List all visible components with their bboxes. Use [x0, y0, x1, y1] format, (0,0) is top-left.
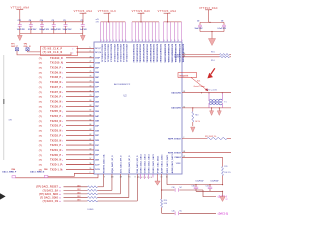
- net label DAC1-Q: [216, 211, 228, 215]
- svg-text:10: 10: [120, 177, 122, 179]
- svg-text:R13: R13: [195, 114, 198, 116]
- svg-text:(T): (T): [39, 140, 42, 142]
- svg-text:D10P: D10P: [95, 58, 100, 60]
- svg-text:(T): (T): [39, 135, 42, 137]
- svg-text:DVDDDAC: DVDDDAC: [132, 53, 135, 63]
- svg-text:58: 58: [90, 153, 92, 155]
- svg-text:mW: mW: [9, 120, 12, 122]
- svg-text:›: ›: [62, 66, 63, 70]
- svg-text:IPTAT_DAC_DAC1: IPTAT_DAC_DAC1: [156, 155, 159, 173]
- svg-text:(T): (T): [39, 92, 42, 94]
- svg-text:DVDDDAC: DVDDDAC: [139, 53, 142, 63]
- capacitor C9: [198, 22, 202, 31]
- svg-text:59: 59: [90, 148, 92, 150]
- net HS_CLK_P row: [43, 48, 63, 50]
- svg-text:›: ›: [62, 138, 63, 142]
- wire DAC1-I chain: [161, 174, 163, 190]
- resistor R11: [222, 157, 224, 166]
- svg-text:33R2: 33R2: [77, 185, 81, 187]
- net TX2D1_N row: [39, 150, 42, 152]
- svg-text:VDDCLK1: VDDCLK1: [119, 44, 121, 53]
- svg-text:S21: S21: [197, 81, 200, 83]
- svg-text:(T): (T): [39, 160, 42, 162]
- svg-text:(T): (T): [39, 111, 42, 113]
- power flag VTT3V3_DAC right: [199, 7, 218, 10]
- svg-text:›: ›: [62, 100, 63, 104]
- svg-text:VREF: VREF: [176, 163, 182, 165]
- capacitor C2: [52, 22, 56, 34]
- svg-text:AVDDCLK: AVDDCLK: [104, 53, 107, 63]
- svg-text:VDDCLK1: VDDCLK1: [119, 53, 121, 62]
- net TX2D4_N row: [39, 121, 42, 123]
- svg-text:DVDDDAC: DVDDDAC: [152, 53, 155, 63]
- annotation testpoint box: [178, 73, 197, 78]
- svg-text:50 1%: 50 1%: [195, 121, 200, 123]
- ferrite FB6: [44, 175, 48, 177]
- svg-text:(T) HS_CLK_N: (T) HS_CLK_N: [43, 52, 63, 54]
- wire DACOUTB: [182, 107, 231, 109]
- svg-text:73: 73: [90, 81, 92, 83]
- svg-text:63: 63: [183, 91, 185, 93]
- svg-text:10K 1%: 10K 1%: [224, 172, 231, 174]
- wire TP1: [17, 51, 71, 55]
- svg-text:13: 13: [161, 177, 163, 179]
- wire DAC1_WRB_P: [16, 174, 98, 178]
- svg-text:67: 67: [90, 110, 92, 112]
- ferrite FB4: [12, 176, 16, 178]
- ground right: [82, 34, 84, 36]
- svg-text:AVDDDAC: AVDDDAC: [135, 53, 138, 63]
- net TX1D7_N row: [39, 92, 42, 94]
- sheet note text: [9, 120, 12, 122]
- resistor R27 net DAC1_SDIO: [40, 196, 58, 199]
- svg-text:TX2D3_N: TX2D3_N: [50, 130, 61, 133]
- svg-text:0.1uF 50V: 0.1uF 50V: [218, 28, 227, 30]
- net TX1D5_P row: [39, 106, 42, 108]
- svg-text:72: 72: [90, 85, 92, 87]
- net TX2D2_P row: [39, 135, 42, 137]
- svg-text:1000pF 50V: 1000pF 50V: [39, 29, 50, 31]
- ground T1 a: [211, 108, 213, 111]
- svg-text:VDDCLK1: VDDCLK1: [113, 44, 115, 53]
- svg-text:(T) DAC1_SA: (T) DAC1_SA: [43, 189, 59, 192]
- svg-text:TX2D-1_P: TX2D-1_P: [50, 164, 62, 167]
- ferrite FB4 refdes: [12, 168, 17, 171]
- svg-text:›: ›: [62, 104, 63, 108]
- svg-text:78: 78: [90, 56, 92, 58]
- capacitor C8: [222, 22, 226, 31]
- annotation red box: [41, 46, 78, 55]
- svg-text:11: 11: [111, 177, 113, 179]
- svg-text:1uF 16V: 1uF 16V: [80, 29, 88, 31]
- svg-text:(TP) DAC1_RESET: (TP) DAC1_RESET: [36, 186, 59, 189]
- svg-text:TX1D9_P: TX1D9_P: [50, 67, 61, 70]
- net TX1D9_P row: [39, 68, 42, 70]
- svg-text:64: 64: [90, 124, 92, 126]
- op-amp U2 AD9148 body: [94, 42, 182, 174]
- svg-text:5: 5: [90, 47, 91, 49]
- net TX2D3_P row: [39, 126, 42, 128]
- svg-text:TX1D8_P: TX1D8_P: [50, 76, 61, 79]
- power flag VTT3V3_ANA 2: [74, 10, 93, 13]
- wire bottom rail: [20, 33, 83, 35]
- svg-text:77: 77: [90, 61, 92, 63]
- svg-text:56: 56: [90, 163, 92, 165]
- svg-text:REFP_SYNCH: REFP_SYNCH: [168, 138, 181, 140]
- svg-text:VTT3V3_DAC: VTT3V3_DAC: [132, 10, 151, 13]
- svg-text:Zout=75 ohm: Zout=75 ohm: [194, 85, 206, 88]
- svg-text:›: ›: [62, 129, 63, 133]
- svg-text:DGND: DGND: [88, 209, 94, 211]
- svg-text:RESETB_DAC1_DA: RESETB_DAC1_DA: [102, 154, 105, 173]
- svg-text:0.1uF 50V: 0.1uF 50V: [211, 181, 220, 183]
- svg-text:〈DAC1-Q: 〈DAC1-Q: [216, 211, 228, 215]
- net TX2D-1_N row: [39, 169, 42, 171]
- sheet border tick: [0, 193, 6, 199]
- svg-text:16: 16: [166, 177, 168, 179]
- svg-text:DGND_DAC1_DAC1: DGND_DAC1_DAC1: [139, 153, 142, 173]
- svg-text:D5N: D5N: [95, 111, 99, 113]
- svg-text:TX1D7_N: TX1D7_N: [50, 91, 61, 94]
- ground left: [19, 34, 21, 36]
- svg-text:2: 2: [90, 172, 91, 174]
- svg-text:43 42 41 40: 43 42 41 40: [137, 177, 153, 179]
- svg-text:59: 59: [183, 55, 185, 57]
- svg-text:(T): (T): [39, 63, 42, 65]
- wire gnd rail: [196, 190, 223, 192]
- svg-text:VDDCLK1: VDDCLK1: [100, 53, 102, 62]
- testpoint TP1: [11, 43, 16, 45]
- svg-text:›: ›: [62, 85, 63, 89]
- row 25 wire: [74, 172, 94, 174]
- svg-text:DACOUTB: DACOUTB: [171, 107, 181, 110]
- svg-text:(T): (T): [39, 68, 42, 70]
- net TX2D5_N row: [39, 111, 42, 113]
- net TX2D0_P row: [39, 155, 42, 157]
- capacitor C31: [18, 22, 22, 34]
- svg-text:0.1uF 16V: 0.1uF 16V: [196, 181, 205, 183]
- svg-text:(T): (T): [39, 77, 42, 79]
- ground dgnd: [157, 174, 159, 181]
- svg-text:VTT3V3_ANA: VTT3V3_ANA: [158, 10, 177, 13]
- svg-text:D1N: D1N: [95, 150, 99, 152]
- svg-text:TX1D9_N: TX1D9_N: [50, 71, 61, 74]
- net TX2D-1_P row: [39, 165, 42, 167]
- svg-text:testpoint: testpoint: [179, 74, 188, 77]
- svg-text:8: 8: [113, 177, 114, 179]
- svg-text:IRQB_DAC1_SP_D: IRQB_DAC1_SP_D: [111, 155, 114, 173]
- svg-text:TX2D5_N: TX2D5_N: [50, 110, 61, 113]
- svg-text:VDDCLK1: VDDCLK1: [107, 53, 109, 62]
- svg-text:C14: C14: [40, 19, 43, 22]
- svg-text:AVDDANA: AVDDANA: [163, 53, 166, 63]
- capacitor C40: [175, 212, 179, 216]
- svg-text:R5 0: R5 0: [211, 60, 215, 62]
- svg-text:DCI_P: DCI_P: [95, 48, 101, 50]
- net TX2D1_P row: [39, 145, 42, 147]
- svg-text:(TP) DAC1_SDO: (TP) DAC1_SDO: [39, 193, 58, 196]
- svg-text:AUXN_DAC1_DAC1: AUXN_DAC1_DAC1: [171, 154, 174, 174]
- svg-text:D-1N: D-1N: [95, 169, 100, 171]
- resistor R5: [220, 56, 230, 58]
- power cluster VTT3V3_CLK wires: [101, 21, 126, 23]
- power cluster VTT3V3_ANA wires: [164, 21, 182, 23]
- svg-text:DVDDDAC: DVDDDAC: [145, 53, 148, 63]
- svg-text:DGND_DAC1_DAC1: DGND_DAC1_DAC1: [152, 153, 155, 173]
- annotation Zout: [194, 85, 206, 88]
- net TX2D4_P row: [39, 116, 42, 118]
- svg-text:›: ›: [62, 56, 63, 60]
- svg-text:DAC1_WRB_P: DAC1_WRB_P: [2, 170, 16, 173]
- net TX1D9_N row: [39, 72, 42, 74]
- svg-text:TX2D2_P: TX2D2_P: [50, 134, 61, 137]
- svg-text:(T): (T): [39, 72, 42, 74]
- svg-text:FSADJ: FSADJ: [175, 156, 181, 159]
- svg-text:TX2D2_N: TX2D2_N: [50, 139, 61, 142]
- svg-text:›: ›: [62, 134, 63, 138]
- svg-text:C8: C8: [221, 21, 223, 23]
- svg-text:›: ›: [62, 167, 63, 171]
- svg-text:AVSSDAC: AVSSDAC: [155, 53, 158, 63]
- svg-text:RTO +/-1.5%: RTO +/-1.5%: [207, 89, 218, 91]
- ground vref: [222, 191, 224, 196]
- svg-text:R12 200R 1%: R12 200R 1%: [205, 136, 217, 138]
- svg-text:›: ›: [62, 153, 63, 157]
- U2 bottom pin names: [102, 154, 105, 173]
- svg-text:›: ›: [62, 80, 63, 84]
- capacitor C38: [195, 184, 196, 185]
- U2 part number: [114, 83, 131, 86]
- wire DAC1_WRB_N: [48, 173, 74, 176]
- svg-text:6: 6: [129, 177, 130, 179]
- svg-text:63: 63: [90, 129, 92, 131]
- svg-text:AVDDCLK: AVDDCLK: [116, 53, 119, 63]
- U2 pin name VREF: [176, 163, 182, 165]
- net DAC1_WRB_P label: [2, 170, 16, 173]
- net TX2D3_N row: [39, 131, 42, 133]
- svg-text:RSTN_SYNCH: RSTN_SYNCH: [168, 153, 181, 155]
- svg-text:VDDCLK1: VDDCLK1: [125, 44, 127, 53]
- svg-text:61: 61: [90, 139, 92, 141]
- svg-text:mW: mW: [96, 19, 99, 21]
- wire NC2: [182, 56, 220, 58]
- svg-text:CSB_DAC1_SPI_D: CSB_DAC1_SPI_D: [136, 155, 139, 173]
- svg-text:(T): (T): [39, 87, 42, 89]
- svg-text:AVSSCLK: AVSSCLK: [122, 53, 125, 63]
- resistor R3: [220, 54, 230, 56]
- svg-text:mW: mW: [96, 22, 99, 24]
- svg-text:(T): (T): [39, 155, 42, 157]
- svg-text:TX2D4_N: TX2D4_N: [50, 120, 61, 123]
- wire pin stub: [152, 174, 154, 178]
- wire RSTN_SYNCH: [182, 152, 231, 154]
- capacitor C37: [209, 184, 210, 185]
- svg-text:(T): (T): [39, 97, 42, 99]
- svg-text:66: 66: [90, 115, 92, 117]
- svg-text:DCI_N: DCI_N: [95, 52, 101, 54]
- capacitor C36: [175, 188, 179, 192]
- bottom pin numbers: [104, 177, 105, 179]
- annotation arrow line: [191, 77, 208, 91]
- svg-text:AVSSCLK: AVSSCLK: [110, 53, 113, 63]
- net TX1D10_P row: [39, 58, 42, 60]
- annotation big arrow: [207, 68, 214, 78]
- svg-text:62: 62: [183, 106, 185, 108]
- note text mW: [96, 19, 99, 21]
- wire DACOUTA: [182, 92, 231, 94]
- ground right bank: [211, 32, 213, 39]
- svg-text:(T) DAC1_CS: (T) DAC1_CS: [43, 200, 59, 203]
- svg-text:DACOUTA: DACOUTA: [171, 92, 181, 95]
- wire dgnd pins: [140, 174, 142, 179]
- svg-text:69: 69: [90, 100, 92, 102]
- ferrite FB6 refdes: [44, 169, 48, 171]
- svg-text:(T): (T): [39, 121, 42, 123]
- testpoint TP2: [24, 43, 29, 45]
- U2 refdes: [124, 94, 128, 97]
- svg-text:C40: C40: [172, 210, 175, 212]
- bottom pin numbers 2: [161, 177, 163, 179]
- resistor R28 net DAC1_CS: [43, 200, 59, 203]
- svg-text:(T): (T): [39, 165, 42, 167]
- svg-text:›: ›: [62, 114, 63, 118]
- svg-text:T1: T1: [224, 102, 226, 104]
- svg-text:(T) DAC1_SDIO: (T) DAC1_SDIO: [40, 196, 58, 199]
- svg-text:VTT3V3_DAC: VTT3V3_DAC: [199, 7, 218, 10]
- svg-text:10uF 25V: 10uF 25V: [17, 29, 26, 31]
- svg-text:SDO_DAC1_SPI_D: SDO_DAC1_SPI_D: [119, 155, 122, 173]
- svg-text:TX2D-1_N: TX2D-1_N: [50, 168, 62, 171]
- power cluster VTT3V3_DAC wires: [132, 21, 159, 23]
- svg-text:TX2D4_P: TX2D4_P: [50, 115, 61, 118]
- svg-text:AD9148BBCPZ: AD9148BBCPZ: [114, 83, 131, 86]
- net TX1D8_N row: [39, 82, 42, 84]
- svg-text:57: 57: [90, 158, 92, 160]
- svg-text:D10N: D10N: [95, 62, 100, 64]
- svg-text:60: 60: [90, 144, 92, 146]
- bottom pin numbers 3: [137, 177, 153, 179]
- svg-text:D8N: D8N: [95, 82, 99, 84]
- svg-text:››: ››: [59, 199, 61, 203]
- svg-text:75: 75: [90, 71, 92, 73]
- ground T1 b: [218, 108, 220, 111]
- power flag VTT3V3_ANA: [11, 7, 30, 10]
- svg-text:FB6: FB6: [44, 169, 48, 171]
- resistor R12: [207, 137, 227, 139]
- wire FSADJ: [182, 156, 223, 158]
- net HS_CLK_N row: [43, 52, 63, 54]
- svg-text:R3 0: R3 0: [211, 52, 215, 54]
- svg-text:TX1D5_P: TX1D5_P: [50, 105, 61, 108]
- svg-text:TX1D7_P: TX1D7_P: [50, 86, 61, 89]
- wire DAC1-Q chain: [162, 212, 175, 214]
- svg-text:›: ›: [62, 148, 63, 152]
- svg-text:0.1uF 50V: 0.1uF 50V: [28, 29, 37, 31]
- svg-text:C9: C9: [197, 21, 199, 23]
- net TX2D0_N row: [39, 160, 42, 162]
- resistor R10: [161, 189, 162, 190]
- label DGND: [88, 209, 94, 211]
- svg-text:D9N: D9N: [95, 72, 99, 74]
- resistor R24 net DAC1_RESET: [36, 186, 59, 189]
- annotation S21: [197, 81, 200, 83]
- svg-text:AVSSANA: AVSSANA: [167, 53, 170, 63]
- svg-text:(T): (T): [39, 82, 42, 84]
- svg-text:(T): (T): [39, 150, 42, 152]
- svg-text:VTT3V3_ANA: VTT3V3_ANA: [74, 10, 93, 13]
- svg-text:D6N: D6N: [95, 101, 99, 103]
- wire rail right: [200, 21, 224, 23]
- svg-text:(T) HS_CLK_P: (T) HS_CLK_P: [43, 48, 63, 50]
- svg-text:CLKON: CLKON: [174, 57, 181, 59]
- svg-text:›: ›: [62, 95, 63, 99]
- net TX1D7_P row: [39, 87, 42, 89]
- net DAC1_WRB_N label: [30, 170, 44, 173]
- svg-text:8: 8: [135, 177, 136, 179]
- svg-text:C37: C37: [206, 185, 209, 187]
- wire VREF rail: [166, 174, 168, 185]
- svg-text:(T): (T): [39, 126, 42, 128]
- svg-text:D4N: D4N: [95, 120, 99, 123]
- svg-text:VTT3V3_CLK: VTT3V3_CLK: [98, 10, 116, 13]
- svg-text:65: 65: [90, 119, 92, 121]
- svg-text:(T): (T): [39, 145, 42, 147]
- net TX2D2_N row: [39, 140, 42, 142]
- wire bottom rail right: [200, 31, 224, 33]
- svg-text:VDDCLK1: VDDCLK1: [125, 53, 127, 62]
- svg-text:(T): (T): [39, 131, 42, 133]
- svg-text:10uF 25V: 10uF 25V: [195, 28, 204, 30]
- svg-text:›: ›: [62, 75, 63, 79]
- resistor R13: [192, 107, 193, 108]
- svg-text:2: 2: [183, 137, 184, 139]
- svg-text:›: ›: [72, 51, 73, 55]
- svg-text:›: ›: [62, 158, 63, 162]
- wire NC1: [182, 54, 220, 56]
- svg-text:C31: C31: [18, 20, 21, 22]
- wire TP2: [28, 51, 41, 52]
- svg-text:C38: C38: [192, 185, 195, 187]
- junction dots rail: [30, 21, 31, 22]
- svg-text:(T): (T): [39, 106, 42, 108]
- svg-text:DAC1_WRB_N: DAC1_WRB_N: [30, 170, 44, 173]
- svg-text:C36: C36: [172, 187, 175, 189]
- svg-text:68: 68: [90, 105, 92, 107]
- capacitor C4: [29, 22, 33, 34]
- net TX1D6_N row: [39, 101, 42, 103]
- svg-text:DVDDDAC: DVDDDAC: [159, 53, 162, 63]
- svg-text:D2N: D2N: [95, 140, 99, 142]
- U2 top pin names: [100, 44, 102, 53]
- wire power rail: [20, 21, 83, 23]
- ground R13: [191, 127, 195, 132]
- annotation RTO: [207, 89, 218, 91]
- capacitor C5: [64, 22, 68, 34]
- svg-text:(T): (T): [39, 58, 42, 60]
- svg-text:55: 55: [90, 168, 92, 170]
- capacitor C1: [81, 22, 85, 34]
- svg-text:›: ›: [62, 90, 63, 94]
- svg-text:SDIO_DAC1_SP_D: SDIO_DAC1_SP_D: [128, 155, 131, 173]
- svg-text:VDDCLK1: VDDCLK1: [107, 44, 109, 53]
- net label DAC1-I: [216, 195, 227, 199]
- svg-text:D0N: D0N: [95, 159, 99, 161]
- svg-text:DNI: DNI: [164, 203, 168, 205]
- svg-text:R11: R11: [224, 166, 227, 168]
- sheet border segment: [3, 55, 5, 160]
- svg-text:33R2: 33R2: [77, 196, 81, 198]
- svg-text:60: 60: [183, 53, 185, 55]
